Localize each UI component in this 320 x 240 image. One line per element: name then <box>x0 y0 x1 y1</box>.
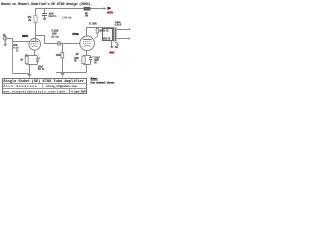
svg-text:25V BG: 25V BG <box>38 68 45 71</box>
resistor R3 cathode 1k <box>27 55 38 57</box>
svg-text:Alex Gendrano: Alex Gendrano <box>3 84 37 88</box>
node junction red dot <box>110 46 112 48</box>
svg-text:One channel shown.: One channel shown. <box>91 81 116 85</box>
wire ground bus right <box>56 72 87 74</box>
ground for secondary <box>116 44 120 47</box>
svg-text:4 June 2007: 4 June 2007 <box>71 90 87 93</box>
wire primary bottom to B+ <box>111 41 113 47</box>
pentode V2 KT88 <box>80 36 95 51</box>
wire cathode lead V2 <box>86 51 88 56</box>
ground for driver stage <box>27 74 31 77</box>
wire cathode network bottom <box>27 65 38 74</box>
wire B+ rail <box>36 9 105 16</box>
svg-text:Single Ended (SE) KT88 Tube Am: Single Ended (SE) KT88 Tube Amplifier <box>3 79 84 84</box>
svg-text:0.02A 5mA: 0.02A 5mA <box>62 16 72 19</box>
svg-text:400V: 400V <box>109 52 115 55</box>
wire cathode network bottom V2 <box>84 65 91 73</box>
svg-text:KT88: KT88 <box>72 33 79 36</box>
resistor R7 cathode 470R <box>84 55 91 57</box>
triode V1 6N1P <box>29 39 41 51</box>
transformer T1 core <box>113 28 115 42</box>
wire plate branch to coupling cap <box>36 36 58 44</box>
wire cathode lead V1 <box>34 50 36 55</box>
wire input to grid <box>7 39 12 42</box>
wire grid KT88 <box>61 43 81 45</box>
wire secondary ground leg <box>115 43 118 45</box>
resistor R6 screen 100R <box>97 28 99 29</box>
svg-text:Notes:: Notes: <box>91 78 99 81</box>
svg-text:6.6k:8: 6.6k:8 <box>115 24 122 27</box>
svg-text:Based on Mikael Abdellah's SE: Based on Mikael Abdellah's SE KT88 desig… <box>1 2 92 7</box>
capacitor C1 coupling 0.22uF <box>57 41 59 46</box>
svg-text:alexg_tt@yahoo.com: alexg_tt@yahoo.com <box>46 84 77 88</box>
resistor R5 grid leak 470k <box>62 44 64 53</box>
capacitor C2 decoupling <box>44 9 46 14</box>
wire plate lead V1 <box>35 39 37 41</box>
ground for output stage <box>60 73 64 76</box>
resistor R1 grid 120k <box>12 42 14 74</box>
svg-text:400V: 400V <box>107 10 114 14</box>
svg-text:www.diyaudioprojects.com/tube: www.diyaudioprojects.com/tube <box>3 89 65 93</box>
svg-text:KT88 SE: KT88 SE <box>103 37 111 40</box>
wire secondary top out <box>117 28 130 29</box>
resistor R2 plate load 47k <box>34 16 37 23</box>
resistor R4 rail dropper <box>84 7 90 10</box>
svg-text:Electro: Electro <box>49 15 58 18</box>
transformer T1 output <box>103 29 113 41</box>
svg-text:T1 100R: T1 100R <box>89 22 98 25</box>
wire ground bus left <box>13 73 30 75</box>
ground for input <box>4 42 6 44</box>
ground for C2 <box>42 18 47 21</box>
node B+ arrow <box>104 7 107 10</box>
wire plate lead V2 to OPT <box>87 28 114 37</box>
capacitor C4 cathode bypass 220uF <box>90 56 92 58</box>
wire secondary bottom out <box>117 38 128 40</box>
svg-text:oil-cap: oil-cap <box>51 35 60 38</box>
svg-text:6N1P: 6N1P <box>22 35 29 38</box>
capacitor C3 cathode bypass <box>37 56 39 59</box>
title block box <box>3 79 87 94</box>
